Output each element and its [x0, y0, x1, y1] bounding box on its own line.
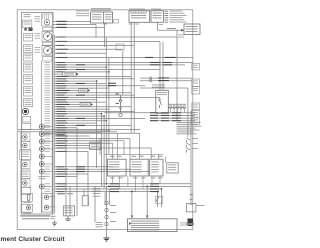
- svg-text:ument Cluster Circuit: ument Cluster Circuit: [0, 236, 65, 243]
